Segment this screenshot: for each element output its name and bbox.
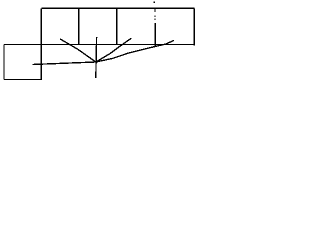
fan line F2 up-left diagonal	[60, 39, 96, 62]
right edge	[193, 8, 195, 45]
divider 3 dot b	[154, 15, 156, 17]
divider 3 dot c	[154, 18, 156, 20]
fan line F3 vertical	[95, 37, 98, 78]
bottom edge of lower-left square	[4, 79, 42, 81]
divider 3 solid part	[154, 23, 156, 47]
long horizontal shared edge	[4, 44, 194, 46]
fan line R1 steep right diagonal	[96, 38, 132, 62]
left edge of lower-left square	[3, 45, 5, 80]
divider 3 dot above top edge	[153, 2, 155, 4]
divider 1	[78, 8, 80, 44]
divider 2	[116, 8, 118, 45]
fan line R2 shallow right diagonal	[96, 40, 174, 62]
divider 3 short segment below top edge	[154, 8, 156, 12]
long left vertical	[40, 8, 42, 80]
fan line F1 left horizontal	[33, 62, 96, 65]
geometry sketch: row of four squares with square below-left and fan of segments	[0, 0, 203, 88]
top edge of square row	[41, 7, 194, 9]
